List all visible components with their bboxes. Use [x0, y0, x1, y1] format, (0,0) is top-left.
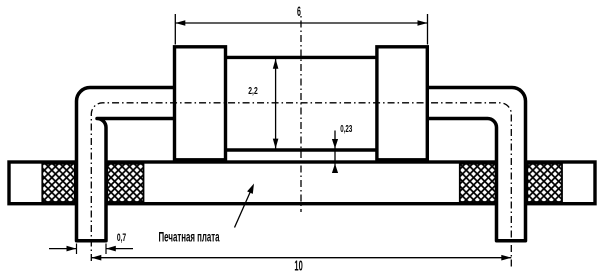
svg-text:6: 6 [297, 5, 301, 20]
svg-text:10: 10 [294, 257, 303, 275]
svg-text:0,23: 0,23 [340, 122, 352, 134]
svg-text:0,7: 0,7 [117, 231, 126, 243]
svg-text:Печатная плата: Печатная плата [159, 231, 221, 246]
svg-text:2,2: 2,2 [248, 84, 258, 96]
